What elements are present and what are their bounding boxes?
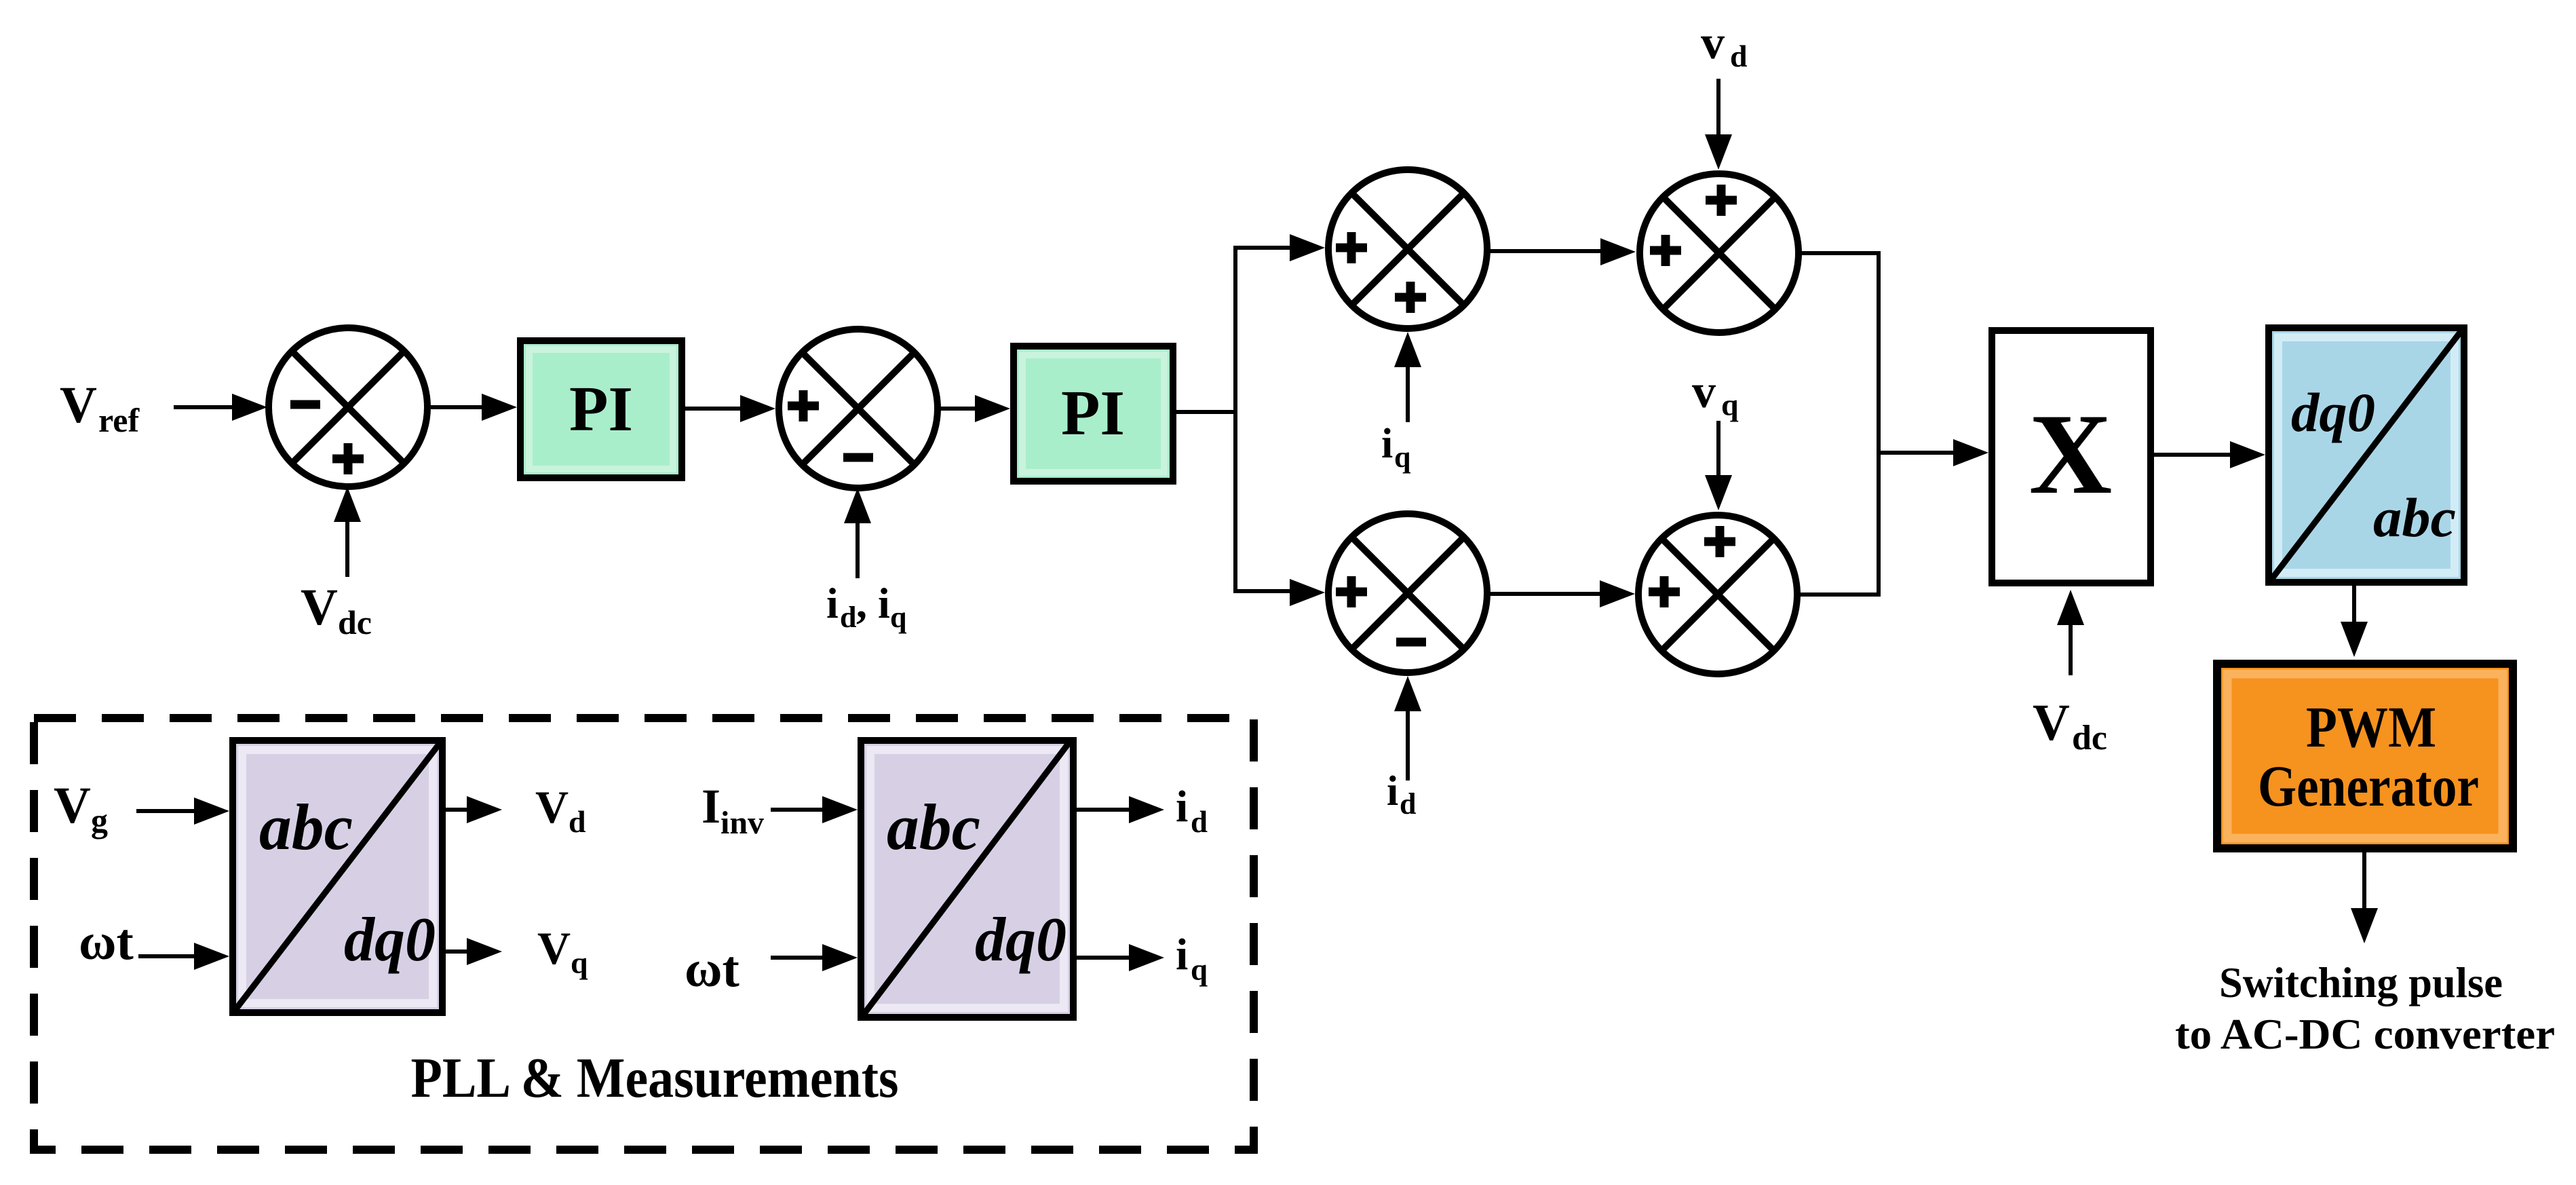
svg-text:Switching pulse: Switching pulse (2219, 958, 2503, 1007)
wire id into S4 (1394, 676, 1421, 780)
wire S4 to S6 (1487, 580, 1635, 607)
node PLL title label (411, 1047, 899, 1110)
svg-text:V: V (54, 777, 91, 834)
summing junction S4 (1328, 514, 1487, 673)
wire PI2 output branch (1176, 246, 1237, 593)
svg-text:V: V (60, 377, 97, 434)
svg-text:q: q (1191, 953, 1208, 987)
svg-text:i: i (1387, 768, 1398, 814)
svg-text:, i: , i (856, 579, 890, 627)
wire Iinv into U3 (771, 796, 858, 823)
svg-text:PWM: PWM (2306, 694, 2436, 759)
svg-text:v: v (1692, 366, 1716, 418)
wire join vertical (1877, 251, 1881, 597)
transform block abc/dq0 U2 (233, 740, 442, 1013)
summing junction S3 (1328, 170, 1487, 328)
wire S1 to PI1 (431, 394, 517, 421)
node id label (1387, 768, 1416, 821)
svg-text:abc: abc (2373, 487, 2456, 548)
svg-text:q: q (571, 945, 588, 980)
node switching pulse label (2175, 958, 2555, 1058)
svg-text:V: V (537, 922, 571, 974)
svg-text:d: d (569, 804, 586, 839)
svg-text:i: i (1381, 421, 1393, 467)
svg-text:inv: inv (720, 805, 764, 841)
svg-text:dq0: dq0 (2291, 381, 2375, 443)
svg-text:i: i (1176, 930, 1188, 979)
node wt label 1 (79, 914, 134, 971)
wire PI1 to summing junction S2 (685, 395, 775, 422)
wire U2 output Vd (446, 796, 502, 823)
svg-text:g: g (91, 802, 108, 840)
node vd label (1701, 17, 1748, 73)
node id,iq label (826, 579, 907, 634)
wire U2 output Vq (446, 938, 502, 965)
node id out label (1176, 782, 1208, 839)
svg-text:dq0: dq0 (344, 905, 436, 974)
summing junction S2 (779, 329, 938, 488)
wire Vdc into X block (2057, 590, 2084, 675)
svg-text:d: d (840, 601, 856, 634)
PWM generator block (2217, 664, 2513, 848)
svg-text:ωt: ωt (79, 914, 134, 971)
svg-text:dq0: dq0 (975, 905, 1066, 974)
wire S6 output to join (1797, 592, 1881, 597)
summing junction S6 (1638, 515, 1797, 674)
wire Vdc into S1 (334, 487, 361, 577)
wire wt into U3 (771, 944, 858, 971)
svg-text:abc: abc (259, 791, 353, 863)
wire wt into U2 (138, 943, 229, 970)
wire PWM output (2351, 852, 2378, 943)
wire Vg into U2 (136, 797, 229, 825)
wire S5 output to join (1799, 251, 1881, 255)
wire S2 to PI2 (938, 395, 1010, 422)
svg-text:V: V (301, 579, 338, 636)
svg-text:q: q (890, 601, 907, 634)
node Vdc label (301, 579, 372, 641)
wire S3 to S5 (1487, 238, 1636, 265)
svg-text:Generator: Generator (2258, 753, 2479, 819)
node wt label 2 (685, 941, 739, 998)
svg-text:X: X (2029, 390, 2113, 518)
svg-text:V: V (535, 781, 569, 833)
wire vd into S5 (1705, 79, 1732, 170)
wire join to X block (1879, 439, 1988, 466)
wire U3 output id (1077, 796, 1164, 823)
PI controller block PI1 (520, 341, 682, 478)
svg-text:ωt: ωt (685, 941, 739, 998)
svg-text:d: d (1191, 805, 1208, 839)
svg-text:PLL & Measurements: PLL & Measurements (411, 1047, 899, 1110)
node Vdc label 2 (2033, 694, 2107, 757)
svg-text:dc: dc (2072, 719, 2107, 757)
svg-text:d: d (1400, 787, 1416, 821)
node iq out label (1176, 930, 1208, 987)
PI controller block PI2 (1014, 346, 1173, 481)
svg-text:i: i (826, 579, 839, 627)
transform block dq0/abc U1 (2269, 328, 2464, 582)
svg-text:d: d (1730, 39, 1748, 73)
wire vq into S6 (1705, 421, 1732, 510)
svg-text:abc: abc (887, 791, 980, 863)
svg-text:PI: PI (1061, 378, 1125, 449)
multiplier block X (1992, 331, 2151, 583)
wire id,iq into S2 (844, 488, 871, 578)
summing junction S5 (1640, 174, 1799, 333)
node Vq out label (537, 922, 588, 980)
PLL and measurements dashed box (34, 718, 1254, 1150)
wire iq into S3 (1394, 332, 1421, 422)
wire U3 output iq (1077, 944, 1164, 971)
svg-text:ref: ref (98, 401, 140, 439)
node Vd out label (535, 781, 586, 839)
wire Vref to summing junction S1 (174, 394, 267, 421)
svg-text:V: V (2033, 694, 2070, 751)
svg-text:to AC-DC converter: to AC-DC converter (2175, 1010, 2555, 1058)
transform block abc/dq0 U3 (861, 740, 1073, 1017)
node Vref label (60, 377, 140, 439)
wire dq0/abc to PWM generator (2341, 586, 2368, 657)
wire branch to summing junction S3 (1233, 234, 1325, 261)
summing junction S1 (269, 328, 427, 487)
svg-text:q: q (1394, 440, 1411, 474)
node Vg label (54, 777, 108, 840)
wire X to dq0/abc block (2154, 441, 2265, 468)
svg-text:PI: PI (569, 374, 633, 445)
svg-text:q: q (1721, 388, 1739, 422)
node iq label (1381, 421, 1411, 474)
node Iinv label (701, 779, 764, 841)
svg-text:i: i (1176, 782, 1188, 831)
node vq label (1692, 366, 1739, 422)
svg-text:I: I (701, 779, 720, 833)
svg-text:dc: dc (338, 603, 372, 641)
svg-text:v: v (1701, 17, 1725, 69)
wire branch to summing junction S4 (1233, 579, 1325, 606)
